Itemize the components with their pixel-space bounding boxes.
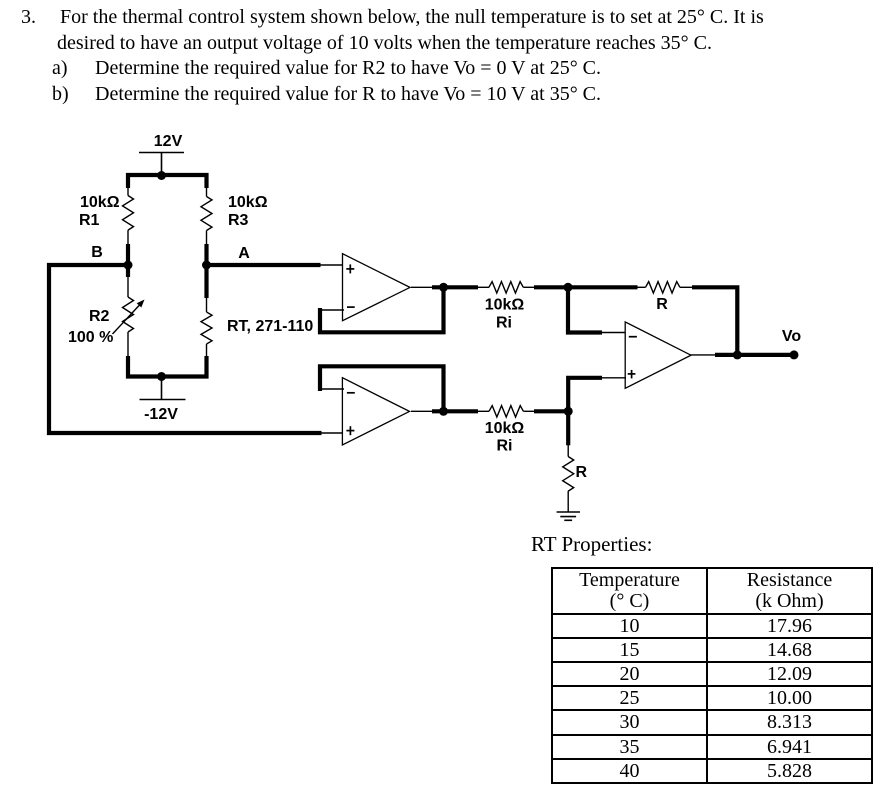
wire summing node to U3 - input [568,287,602,332]
svg-text:-12V: -12V [144,406,178,423]
wire thin into U3 - input [601,332,627,334]
resistor R1 [123,186,134,245]
svg-text:R2: R2 [89,308,110,325]
wire U1 output thick [432,285,478,289]
svg-text:R: R [576,464,588,481]
op-amp U1 buffer (top) [343,254,411,321]
junction bottom rail / -12V [157,372,166,381]
svg-text:10kΩ: 10kΩ [80,194,120,211]
U1 - input pin mark [347,306,355,308]
resistor R to ground [563,444,574,512]
node Vo terminal dot [790,350,799,359]
resistor R3 [201,186,212,245]
resistor Ri (bottom) [477,406,535,417]
svg-text:10kΩ: 10kΩ [485,297,525,314]
wire U2 output thin [411,410,434,412]
wire node A to buffer U1 + input [207,263,321,267]
op-amp U2 buffer (bottom) [342,378,409,445]
wire R feedback to output [692,287,737,355]
potentiometer R2 [113,276,140,357]
wire thin into U1 + input [319,264,344,266]
wire Ri top to summing node [534,285,570,289]
svg-text:RT, 271-110: RT, 271-110 [227,318,313,335]
wire top rail [128,175,207,188]
wire A node vertical stub [204,244,208,298]
svg-text:R1: R1 [79,212,100,229]
svg-text:R: R [656,296,668,313]
resistor Ri (top) [477,282,535,293]
RT Properties heading [531,532,652,557]
wire B node vertical stub [126,244,130,277]
wire Ri bottom to lower summing node [534,409,570,413]
svg-text:Vo: Vo [782,328,801,345]
wire from node B around left side to buffer U2 + input [49,265,322,433]
junction U1 output / feedback [439,283,448,292]
wire U3 + input thin [601,377,627,379]
U3 - input pin mark [629,336,637,338]
U2 - input pin mark [347,392,355,394]
svg-text:R3: R3 [228,212,249,229]
junction summing node top [564,283,573,292]
op-amp U3 difference amp [625,322,691,388]
wire lower summing node down to resistor R ground leg [566,411,570,445]
wire U2 - input feedback (thin) [320,388,344,390]
node B junction dot [124,261,133,270]
problem statement text [21,6,36,29]
wire U2 output thick [432,409,478,413]
wire U1 feedback loop [320,289,444,332]
wire summing node to feedback resistor R [568,285,638,289]
svg-text:10kΩ: 10kΩ [228,194,268,211]
wire U3 output thick [715,353,794,357]
svg-text:10kΩ: 10kΩ [485,420,525,437]
junction U2 output / feedback [439,407,448,416]
wire U1 output thin [411,286,434,288]
thermistor RT [201,297,212,357]
U3 + input pin mark [628,370,636,379]
svg-text:B: B [91,244,103,261]
wire U3 output thin [691,354,718,356]
resistor R feedback [637,282,695,293]
U1 + input pin mark [346,264,354,273]
svg-text:100 %: 100 % [68,329,113,346]
R2 arrow head [137,300,145,308]
junction summing node bottom [564,407,573,416]
svg-text:Ri: Ri [497,438,513,455]
wire U3 + input to lower summing node [568,378,602,412]
svg-text:12V: 12V [154,133,183,150]
ground symbol [557,512,580,520]
wire U1 - input feedback (thin) [320,309,344,311]
U2 + input pin mark [346,426,354,435]
svg-text:A: A [238,245,250,262]
power supply -12V bar symbol [140,377,186,400]
junction top rail / 12V [157,171,166,180]
node A junction dot [202,261,211,270]
junction U3 output / feedback [733,350,742,359]
wire thin into U2 + input [320,432,344,434]
wire U2 feedback loop [320,366,444,409]
wire bottom rail [128,356,207,377]
power supply +12V bar symbol [139,153,184,175]
RT properties table [551,567,873,784]
svg-text:Ri: Ri [496,315,512,332]
